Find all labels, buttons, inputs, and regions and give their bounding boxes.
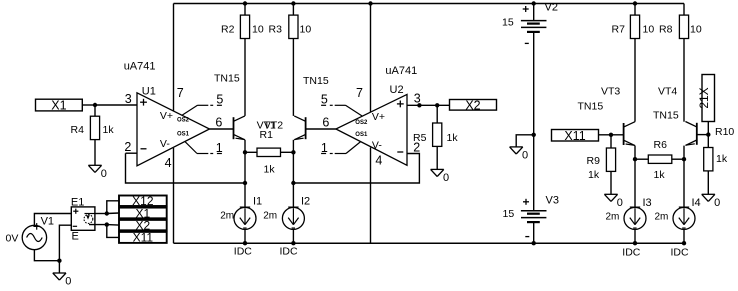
svg-text:4: 4 [165, 156, 172, 170]
wire to X1 tap [107, 212, 119, 215]
port X11 [552, 130, 599, 142]
wire X12 to node [707, 122, 709, 135]
wire V1 plus to E1 [34, 214, 71, 226]
transistor VT4 [696, 123, 698, 145]
svg-text:TN15: TN15 [578, 100, 604, 112]
wire U1 pin 2 [126, 152, 138, 154]
svg-text:TN15: TN15 [653, 109, 679, 121]
svg-text:7: 7 [177, 86, 184, 100]
svg-text:6: 6 [322, 116, 329, 130]
svg-text:5: 5 [216, 92, 223, 106]
svg-text:R8: R8 [659, 23, 673, 35]
svg-text:0: 0 [101, 168, 107, 180]
svg-text:V+: V+ [160, 110, 173, 122]
wire to X2 tap [107, 224, 119, 227]
svg-text:0: 0 [65, 276, 71, 288]
U2 pin 1 offset null stub [346, 142, 361, 154]
resistor R9 [610, 135, 612, 148]
wire U1 output to VT1 base [210, 128, 234, 130]
current source I2 [282, 207, 304, 229]
svg-text:E: E [72, 230, 79, 242]
svg-text:V-: V- [372, 140, 382, 152]
svg-text:IDC: IDC [671, 247, 690, 259]
transistor VT1 [233, 117, 235, 139]
transistor VT3 [623, 123, 625, 145]
wire VT2 collector [292, 39, 294, 116]
battery V3 -15 [533, 135, 535, 211]
resistor R2 [240, 15, 249, 38]
op-amp U1 [137, 93, 210, 166]
wire E1 output upper [95, 213, 107, 215]
svg-text:0V: 0V [6, 233, 19, 245]
svg-text:1: 1 [321, 141, 328, 155]
port X1 [36, 99, 83, 111]
svg-text:1k: 1k [654, 169, 666, 181]
wire U1 feedback loop [126, 153, 246, 183]
svg-text:2m: 2m [263, 210, 277, 221]
wire U2 pin 3 [407, 104, 450, 106]
svg-text:X11: X11 [564, 129, 585, 143]
wire V+ supply to U1 pin 7 [173, 4, 175, 112]
wire to ground [516, 135, 534, 147]
port tap X1 [119, 208, 167, 219]
U1 pin 1 offset null stub [185, 142, 197, 154]
svg-text:0: 0 [443, 172, 449, 184]
power rail +15V (top) [174, 3, 685, 5]
wire VT1 emitter [244, 140, 246, 208]
svg-text:VT3: VT3 [601, 86, 620, 98]
svg-text:0: 0 [617, 197, 623, 209]
svg-text:OS1: OS1 [177, 131, 190, 137]
resistor R6 [635, 158, 648, 160]
svg-text:V1: V1 [41, 216, 54, 228]
svg-text:0: 0 [714, 197, 720, 209]
svg-text:6: 6 [215, 116, 222, 130]
ground [702, 193, 715, 195]
svg-text:R3: R3 [269, 23, 283, 35]
svg-text:U1: U1 [142, 86, 156, 98]
ground [53, 272, 66, 274]
node A junction [93, 103, 97, 107]
resistor R5 [436, 105, 438, 123]
svg-text:1k: 1k [264, 163, 276, 175]
wire node A to U1 pin 3 [95, 104, 137, 106]
controlled source E1 [71, 207, 95, 230]
wire U2 pin 4 to -15V rail [370, 148, 372, 244]
ground [604, 193, 617, 195]
node 0 junction [532, 133, 536, 137]
wire U1 pin 4 to -15V rail [173, 148, 175, 243]
ground [88, 164, 101, 166]
battery V2 +15 [533, 4, 535, 21]
svg-text:VT4: VT4 [658, 86, 677, 98]
svg-text:1k: 1k [103, 124, 115, 136]
svg-text:IDC: IDC [280, 246, 299, 258]
wire VT4 base node [697, 134, 709, 136]
U2 pin 5 offset null stub [346, 105, 363, 116]
svg-text:IDC: IDC [234, 246, 253, 258]
wire VT2 emitter [292, 140, 294, 208]
port tap X2 [119, 220, 167, 230]
wire U2 pin 7 to +15V rail [370, 4, 372, 113]
op-amp U2 [336, 94, 407, 165]
svg-text:R1: R1 [260, 129, 274, 141]
svg-text:15: 15 [502, 16, 514, 28]
transistor VT2 [305, 117, 307, 139]
resistor R4 [94, 105, 96, 116]
port X2 [450, 100, 497, 111]
svg-text:X2: X2 [465, 98, 480, 112]
svg-text:2m: 2m [655, 211, 669, 222]
wire VT3 collector [634, 39, 636, 122]
svg-text:OS1: OS1 [355, 132, 368, 138]
resistor R7 [630, 15, 639, 38]
svg-text:1k: 1k [588, 169, 600, 181]
wire VT4 emitter [683, 146, 685, 208]
svg-text:10: 10 [252, 23, 264, 35]
resistor R1 [245, 151, 257, 153]
svg-text:10: 10 [690, 23, 702, 35]
wire VT1 collector [244, 39, 246, 116]
svg-text:2m: 2m [220, 210, 234, 221]
svg-text:3: 3 [125, 92, 132, 106]
port tap X12 [119, 196, 167, 207]
port X12 [702, 75, 715, 122]
svg-text:V+: V+ [372, 111, 385, 123]
svg-text:OS2: OS2 [355, 120, 368, 126]
wire E1 output lower [89, 224, 107, 226]
U1 pin 5 offset null stub [182, 105, 198, 115]
svg-text:TN15: TN15 [214, 73, 240, 85]
svg-text:R6: R6 [654, 139, 668, 151]
wire V1 minus to ground [34, 250, 59, 261]
power rail -15V (bottom) [174, 242, 685, 244]
svg-text:V3: V3 [546, 194, 559, 206]
svg-text:uA741: uA741 [124, 61, 156, 73]
svg-text:U2: U2 [390, 84, 404, 96]
svg-text:7: 7 [356, 86, 363, 100]
svg-text:uA741: uA741 [385, 65, 417, 77]
svg-text:R4: R4 [71, 124, 85, 136]
wire VT4 collector [683, 39, 685, 122]
svg-text:R5: R5 [413, 132, 427, 144]
svg-text:TN15: TN15 [303, 75, 329, 87]
current source I1 [234, 207, 256, 229]
resistor R8 [679, 15, 688, 38]
svg-text:R7: R7 [612, 23, 626, 35]
svg-text:0: 0 [522, 150, 528, 162]
svg-text:E1: E1 [71, 196, 84, 208]
node junction [609, 133, 613, 137]
wire to X11 tap [107, 225, 119, 238]
port tap X11 [119, 232, 167, 243]
ground [431, 168, 444, 170]
svg-text:X1: X1 [51, 99, 66, 113]
wire X1 to node A [82, 104, 95, 106]
svg-text:5: 5 [321, 92, 328, 106]
current source I3 [624, 207, 646, 229]
svg-text:1: 1 [216, 141, 223, 155]
resistor R10 [707, 135, 709, 148]
wire E1 minus input [59, 225, 71, 261]
svg-text:I4: I4 [692, 197, 701, 209]
svg-text:I1: I1 [253, 196, 262, 208]
svg-text:I2: I2 [301, 196, 310, 208]
svg-text:2m: 2m [606, 211, 620, 222]
svg-text:R2: R2 [221, 23, 235, 35]
svg-text:OS2: OS2 [177, 118, 190, 124]
svg-text:4: 4 [375, 154, 382, 168]
svg-text:X11: X11 [133, 231, 154, 245]
sine source V1 [22, 225, 46, 249]
wire U2 pin 2 feedback loop [293, 154, 419, 184]
wire X11 to VT3 base [599, 134, 624, 136]
svg-text:IDC: IDC [622, 247, 641, 259]
svg-text:R9: R9 [587, 155, 601, 167]
svg-text:2: 2 [124, 140, 131, 154]
ground [510, 146, 523, 148]
svg-text:V2: V2 [545, 1, 558, 13]
svg-text:V-: V- [160, 138, 170, 150]
wire VT3 emitter [634, 146, 636, 208]
wire to X12 tap [107, 201, 119, 214]
svg-text:1k: 1k [447, 132, 459, 144]
svg-text:10: 10 [643, 23, 655, 35]
wire VT2 base to U2 output [306, 128, 336, 130]
svg-text:I3: I3 [643, 197, 652, 209]
svg-text:15: 15 [503, 208, 515, 220]
svg-text:R10: R10 [715, 126, 734, 138]
resistor R3 [289, 15, 298, 38]
svg-text:10: 10 [300, 23, 312, 35]
svg-text:1k: 1k [716, 153, 728, 165]
svg-text:21X: 21X [697, 87, 711, 108]
current source I4 [673, 207, 695, 229]
